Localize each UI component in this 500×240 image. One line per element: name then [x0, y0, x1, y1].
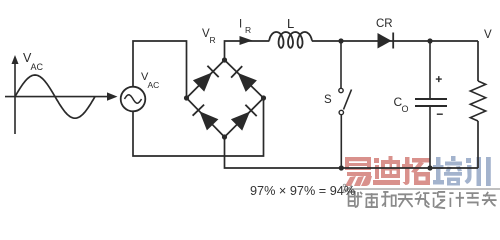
svg-text:R: R	[210, 35, 216, 45]
svg-text:V: V	[484, 29, 492, 41]
node capacitor bottom	[427, 165, 432, 170]
watermark char 易	[345, 157, 372, 186]
wire bridge top node to top rail	[225, 41, 270, 60]
capacitor minus sign	[437, 113, 443, 115]
svg-text:O: O	[402, 104, 409, 114]
capacitor plus sign	[436, 76, 442, 82]
bridge node left	[184, 95, 189, 100]
capacitor C_O	[429, 41, 431, 98]
watermark char 培	[433, 156, 462, 186]
AC source V_AC	[121, 87, 146, 112]
node output top	[427, 38, 432, 43]
bridge diode D3 (bottom-left)	[199, 111, 218, 130]
bridge diode D1 (left-top)	[193, 73, 212, 92]
watermark char 训	[465, 157, 491, 186]
svg-text:97% × 97% = 94%: 97% × 97% = 94%	[250, 184, 355, 198]
current arrow I_R	[240, 36, 253, 45]
wire inductor to output corner	[312, 40, 478, 42]
svg-text:CR: CR	[376, 18, 393, 30]
node switch bottom	[339, 165, 344, 170]
wire right side output (resistor leads)	[477, 41, 479, 168]
input waveform vertical axis	[14, 62, 16, 134]
bridge diode D4 (bottom-right)	[231, 112, 250, 131]
inductor L	[269, 32, 312, 48]
svg-text:R: R	[245, 25, 251, 35]
watermark divider line	[346, 188, 500, 190]
wire AC source top to bridge left node	[133, 41, 187, 98]
watermark slogan 射频和天线设计专家	[349, 192, 497, 208]
wire bridge bottom node to bottom rail	[225, 137, 479, 168]
svg-text:I: I	[239, 19, 242, 31]
watermark char 拓	[402, 157, 430, 185]
bridge node right	[261, 95, 266, 100]
svg-text:AC: AC	[148, 80, 160, 90]
load resistor	[470, 81, 485, 121]
svg-text:S: S	[324, 94, 332, 106]
wire AC source bottom to bridge right node	[133, 98, 264, 156]
switch S	[340, 41, 342, 88]
bridge node bottom	[222, 134, 227, 139]
watermark scissors	[345, 185, 352, 192]
input waveform horizontal axis	[5, 96, 108, 98]
bridge rectifier arms	[187, 60, 264, 137]
svg-text:AC: AC	[31, 62, 44, 72]
input sine wave	[15, 75, 95, 118]
watermark char 迪	[373, 156, 400, 185]
node switch tap (top)	[338, 38, 343, 43]
bridge node top	[222, 57, 227, 62]
bridge diode D2 (right-top)	[238, 73, 257, 92]
diode CR	[378, 33, 392, 49]
svg-text:L: L	[287, 16, 294, 31]
